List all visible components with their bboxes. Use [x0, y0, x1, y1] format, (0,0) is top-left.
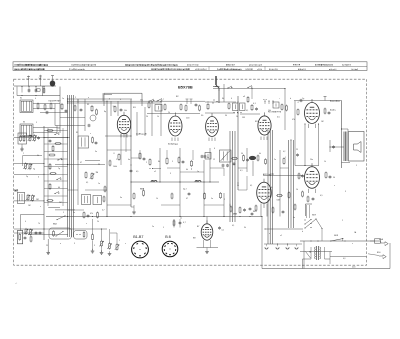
- svg-text:7k: 7k: [38, 223, 40, 225]
- svg-text:x1: x1: [280, 235, 282, 237]
- svg-text:3: 3: [345, 191, 346, 193]
- svg-text:5KB: 5KB: [233, 214, 237, 216]
- svg-text:47k: 47k: [90, 213, 93, 215]
- svg-text:a: a: [23, 153, 24, 155]
- svg-text:2n: 2n: [274, 159, 276, 161]
- svg-text:50: 50: [241, 153, 243, 155]
- svg-text:5: 5: [63, 212, 64, 214]
- svg-text:20n: 20n: [310, 159, 313, 161]
- svg-text:2: 2: [342, 220, 343, 222]
- svg-text:3: 3: [109, 99, 110, 101]
- svg-text:1M: 1M: [242, 117, 245, 119]
- svg-text:6: 6: [214, 148, 215, 150]
- svg-text:+: +: [279, 98, 280, 100]
- svg-text:4,7: 4,7: [183, 222, 186, 224]
- svg-text:47: 47: [80, 162, 82, 164]
- svg-text:4n: 4n: [128, 159, 130, 161]
- svg-text:6,3: 6,3: [343, 258, 345, 260]
- svg-text:a a a: a a a: [263, 99, 267, 101]
- svg-text:50: 50: [333, 177, 335, 179]
- svg-text:6k: 6k: [186, 169, 188, 171]
- svg-text:x2: x2: [154, 171, 156, 173]
- svg-text:4: 4: [25, 221, 26, 223]
- svg-text:1n: 1n: [98, 183, 100, 185]
- svg-text:3: 3: [74, 243, 75, 245]
- svg-text:2p: 2p: [26, 176, 28, 178]
- svg-text:5k: 5k: [37, 155, 39, 157]
- svg-text:47k: 47k: [292, 119, 295, 121]
- svg-text:4,7: 4,7: [102, 210, 105, 212]
- svg-text:a3: a3: [243, 96, 245, 98]
- svg-text:B1-B7: B1-B7: [133, 235, 143, 239]
- svg-text:0,1: 0,1: [250, 185, 252, 187]
- svg-text:0,1: 0,1: [232, 225, 234, 227]
- svg-text:a: a: [362, 119, 363, 121]
- svg-text:2k: 2k: [168, 112, 170, 114]
- svg-text:1: 1: [116, 159, 117, 161]
- svg-text:0,5: 0,5: [320, 195, 323, 197]
- svg-text:7p: 7p: [58, 168, 60, 170]
- svg-text:30: 30: [225, 115, 227, 117]
- svg-text:12: 12: [213, 159, 215, 161]
- svg-text:3n: 3n: [95, 151, 97, 153]
- svg-text:2n: 2n: [152, 226, 154, 228]
- svg-text:B5X78B: B5X78B: [178, 85, 193, 90]
- svg-text:5p 2: 5p 2: [183, 189, 187, 191]
- svg-text:b: b: [290, 98, 291, 100]
- svg-text:25: 25: [296, 149, 298, 151]
- svg-text:5: 5: [356, 165, 357, 167]
- svg-text:4k: 4k: [259, 153, 261, 155]
- svg-text:0,1: 0,1: [86, 182, 88, 184]
- svg-text:8p: 8p: [104, 111, 106, 113]
- svg-text:2k: 2k: [97, 221, 99, 223]
- svg-text:b: b: [302, 231, 303, 233]
- svg-text:40: 40: [58, 187, 60, 189]
- svg-text:S2: S2: [20, 98, 22, 100]
- svg-text:8k: 8k: [158, 161, 160, 163]
- svg-text:1: 1: [285, 157, 286, 159]
- svg-text:S1: S1: [87, 104, 89, 106]
- svg-text:+a: +a: [297, 102, 299, 104]
- svg-text:SKB: SKB: [140, 189, 145, 191]
- svg-text:1k: 1k: [157, 116, 159, 118]
- svg-text:1n: 1n: [62, 98, 64, 100]
- svg-text:0,2: 0,2: [283, 151, 285, 153]
- svg-text:a: a: [88, 97, 89, 99]
- svg-text:4n: 4n: [293, 217, 295, 219]
- svg-text:10: 10: [236, 116, 238, 118]
- svg-text:2: 2: [224, 199, 225, 201]
- svg-text:10k: 10k: [268, 110, 271, 112]
- svg-text:1k: 1k: [156, 198, 158, 200]
- svg-text:3n: 3n: [120, 197, 122, 199]
- svg-text:1n: 1n: [197, 171, 199, 173]
- svg-text:4: 4: [35, 98, 36, 100]
- svg-text:a: a: [60, 243, 61, 245]
- svg-text:25: 25: [237, 185, 239, 187]
- svg-text:100k: 100k: [113, 166, 117, 168]
- svg-text:S3: S3: [23, 122, 25, 124]
- svg-text:0,5: 0,5: [136, 171, 138, 173]
- svg-text:S5: S5: [76, 132, 78, 134]
- svg-text:900: 900: [57, 128, 60, 130]
- svg-text:0,1: 0,1: [240, 170, 243, 172]
- svg-text:1n: 1n: [73, 212, 75, 214]
- svg-text:S4: S4: [222, 98, 224, 100]
- svg-text:1: 1: [119, 240, 120, 242]
- svg-text:3: 3: [170, 173, 171, 175]
- svg-text:3k: 3k: [244, 227, 246, 229]
- svg-text:5: 5: [94, 245, 95, 247]
- svg-text:7p: 7p: [33, 169, 35, 171]
- svg-text:25: 25: [98, 164, 100, 166]
- svg-text:B 8: B 8: [165, 235, 171, 239]
- svg-text:a: a: [269, 233, 270, 235]
- svg-text:2: 2: [146, 162, 147, 164]
- svg-text:Cg: Cg: [302, 98, 304, 100]
- svg-text:47: 47: [186, 198, 188, 200]
- svg-text:b: b: [38, 177, 39, 179]
- svg-text:NR: NR: [14, 188, 18, 192]
- svg-text:25: 25: [46, 245, 48, 247]
- svg-text:5: 5: [172, 161, 173, 163]
- svg-text:0,1: 0,1: [222, 230, 225, 232]
- svg-text:2n: 2n: [307, 121, 309, 123]
- svg-text:0,1: 0,1: [246, 110, 248, 112]
- svg-text:1k: 1k: [324, 161, 326, 163]
- svg-text:50k: 50k: [124, 110, 127, 112]
- svg-text:25p: 25p: [140, 100, 143, 102]
- svg-text:1M: 1M: [96, 172, 99, 174]
- svg-text:B7: B7: [197, 226, 199, 228]
- svg-text:7: 7: [222, 159, 223, 161]
- svg-text:B50: B50: [377, 252, 380, 254]
- svg-text:2: 2: [75, 97, 76, 99]
- svg-text:8: 8: [114, 153, 115, 155]
- svg-text:6: 6: [231, 98, 232, 100]
- svg-text:5: 5: [163, 227, 164, 229]
- svg-text:5: 5: [36, 122, 37, 124]
- svg-text:5n: 5n: [211, 198, 213, 200]
- svg-text:1k: 1k: [296, 189, 298, 191]
- svg-text:20: 20: [146, 116, 148, 118]
